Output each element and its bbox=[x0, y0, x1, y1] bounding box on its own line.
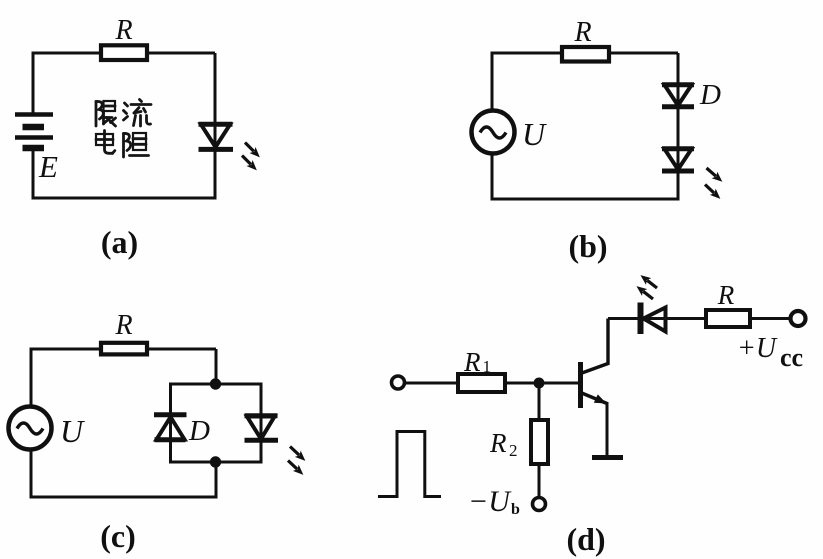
svg-text:R: R bbox=[573, 17, 591, 48]
resistor R1 bbox=[458, 374, 505, 392]
LED (d) pointing left bbox=[641, 303, 666, 335]
diode D (c) pointing up bbox=[154, 415, 187, 440]
node top c bbox=[210, 378, 221, 389]
LED lower (b) bbox=[662, 149, 694, 171]
wire branch top c bbox=[169, 383, 261, 386]
transistor emitter lead with arrow bbox=[581, 393, 608, 456]
wire top loop c bbox=[31, 348, 216, 351]
input terminal circle d bbox=[392, 376, 405, 389]
wire LED to R bbox=[664, 317, 706, 320]
transistor collector lead bbox=[581, 319, 609, 374]
ground bar bbox=[592, 455, 623, 460]
svg-text:2: 2 bbox=[509, 441, 518, 460]
svg-text:D: D bbox=[699, 79, 721, 111]
svg-text:(c): (c) bbox=[100, 518, 136, 554]
wire top loop b bbox=[492, 52, 678, 55]
wire branch bottom c bbox=[169, 461, 261, 464]
LED D (a) bbox=[199, 124, 234, 149]
svg-text:(a): (a) bbox=[101, 224, 138, 260]
wire left lower c bbox=[30, 448, 33, 499]
resistor R (b) bbox=[562, 47, 609, 62]
svg-text:D: D bbox=[188, 415, 210, 447]
resistor R2 bbox=[531, 420, 548, 464]
svg-text:R: R bbox=[114, 15, 132, 46]
wire bottom b bbox=[491, 198, 680, 201]
wire right upper c bbox=[215, 349, 218, 384]
svg-text:U: U bbox=[60, 413, 85, 449]
wire right a bbox=[214, 53, 217, 198]
pulse waveform symbol bbox=[378, 432, 441, 497]
resistor R (a) bbox=[101, 45, 147, 60]
wire left lower a bbox=[32, 148, 35, 200]
arrow light b2 bbox=[702, 181, 723, 202]
wire bottom c bbox=[30, 496, 218, 499]
text 限流 电阻 annotation bbox=[96, 100, 151, 158]
svg-text:R: R bbox=[489, 428, 507, 458]
node bottom c bbox=[210, 456, 221, 467]
label -Ub bbox=[468, 485, 520, 518]
wire R2 to terminal bbox=[538, 464, 541, 497]
wire branch left c bbox=[169, 383, 172, 464]
terminal circle +Ucc bbox=[791, 311, 806, 326]
wire left upper b bbox=[491, 52, 494, 113]
svg-text:U: U bbox=[522, 116, 547, 152]
svg-text:(b): (b) bbox=[568, 228, 607, 264]
wire input to base d bbox=[405, 382, 578, 385]
wire left upper c bbox=[30, 348, 33, 409]
arrow light d1 bbox=[638, 272, 660, 292]
wire bottom a bbox=[32, 197, 217, 200]
arrow light a2 bbox=[239, 152, 260, 173]
diode D upper (b) bbox=[662, 85, 694, 107]
svg-text:1: 1 bbox=[483, 357, 492, 376]
svg-text:cc: cc bbox=[780, 343, 803, 372]
svg-text:+U: +U bbox=[737, 333, 778, 364]
wire top loop a bbox=[33, 52, 215, 55]
resistor R (d) bbox=[706, 310, 750, 327]
svg-text:R: R bbox=[114, 310, 132, 341]
arrow light c1 bbox=[287, 443, 308, 464]
ac source U (c) bbox=[9, 407, 52, 450]
ac source U (b) bbox=[472, 111, 515, 154]
terminal circle -Ub bbox=[533, 498, 546, 511]
wire collector to LED bbox=[608, 317, 706, 320]
resistor R (c) bbox=[101, 343, 147, 355]
svg-text:b: b bbox=[511, 501, 520, 518]
svg-text:E: E bbox=[38, 149, 58, 184]
svg-text:R: R bbox=[717, 280, 735, 310]
transistor Q base bar bbox=[578, 362, 583, 408]
arrow light b1 bbox=[704, 165, 725, 185]
LED (c) pointing down bbox=[245, 416, 279, 441]
label +Ucc bbox=[737, 333, 803, 372]
wire branch right c bbox=[260, 383, 263, 464]
svg-text:R: R bbox=[463, 347, 481, 377]
wire left lower b bbox=[491, 152, 494, 201]
arrow light c2 bbox=[285, 457, 306, 478]
wire right b bbox=[677, 53, 680, 199]
arrow light a1 bbox=[242, 139, 263, 160]
arrow light d2 bbox=[634, 283, 656, 303]
node base d bbox=[534, 378, 545, 389]
svg-text:−U: −U bbox=[468, 485, 512, 518]
wire node to R2 bbox=[538, 383, 541, 421]
wire R to +Ucc terminal bbox=[750, 317, 790, 320]
label R2 bbox=[489, 428, 518, 460]
wire right lower c bbox=[215, 462, 218, 497]
battery E bbox=[15, 115, 53, 149]
svg-text:(d): (d) bbox=[566, 521, 605, 557]
label R1 bbox=[463, 347, 491, 377]
wire left upper a bbox=[32, 52, 35, 115]
